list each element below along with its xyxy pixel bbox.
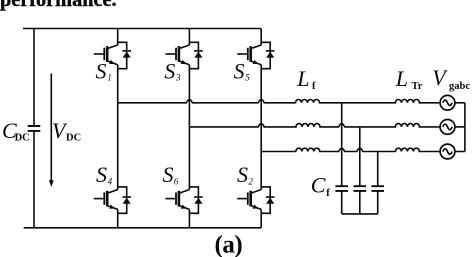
svg-text:6: 6 (174, 177, 179, 187)
svg-text:DC: DC (66, 133, 81, 144)
svg-text:4: 4 (108, 177, 113, 187)
svg-text:DC: DC (15, 133, 30, 144)
svg-text:S: S (164, 59, 175, 84)
svg-text:5: 5 (245, 72, 250, 82)
svg-text:V: V (432, 65, 448, 90)
svg-text:f: f (312, 81, 316, 92)
svg-text:S: S (237, 162, 248, 187)
svg-text:S: S (96, 59, 107, 84)
svg-text:gabc: gabc (449, 81, 470, 92)
svg-text:2: 2 (248, 177, 253, 187)
svg-text:L: L (296, 66, 309, 91)
svg-text:S: S (163, 162, 174, 187)
svg-text:Tr: Tr (412, 81, 423, 92)
svg-text:L: L (395, 66, 408, 91)
svg-text:3: 3 (175, 72, 181, 82)
svg-text:C: C (311, 173, 326, 198)
svg-text:S: S (96, 162, 107, 187)
svg-text:S: S (234, 59, 245, 84)
svg-text:f: f (326, 188, 330, 199)
svg-text:1: 1 (107, 72, 112, 82)
svg-text:(a): (a) (215, 232, 243, 257)
